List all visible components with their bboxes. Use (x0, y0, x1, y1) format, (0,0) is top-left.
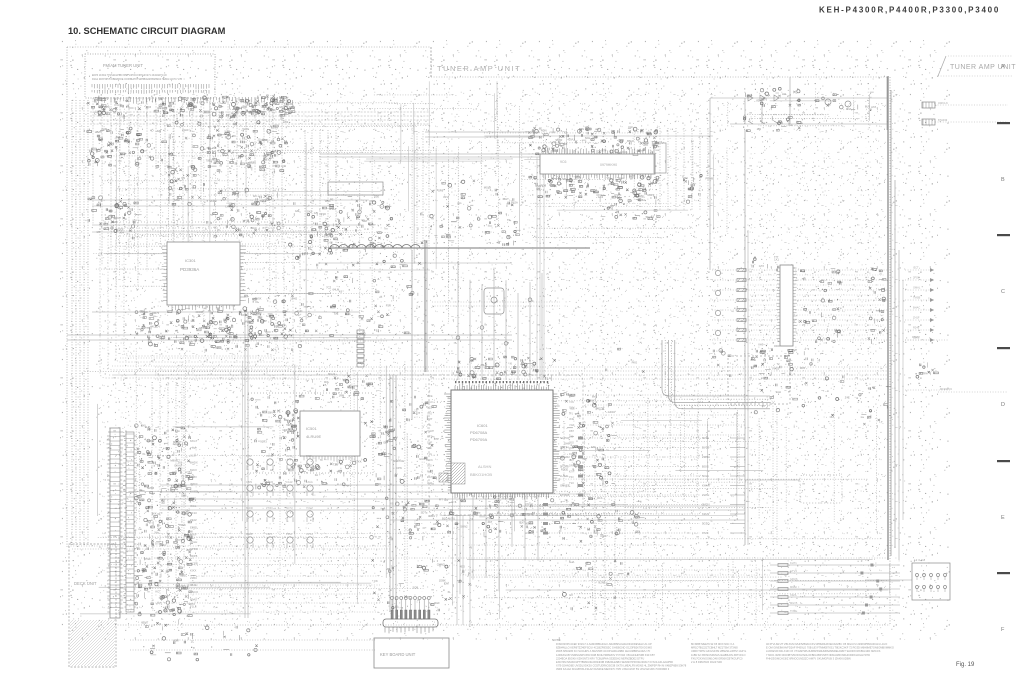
svg-text:7NE5: 7NE5 (179, 523, 186, 527)
svg-text:IE6: IE6 (571, 407, 576, 411)
svg-text:9GZ: 9GZ (427, 406, 432, 410)
svg-text:0NN: 0NN (536, 184, 541, 188)
svg-text:4DVU: 4DVU (567, 138, 574, 142)
svg-text:XI79 02HNO6E UVSDLXDK3U CG5TUD: XI79 02HNO6E UVSDLXDK3U CG5TUDR6OSG38 GK… (556, 664, 687, 668)
svg-text:B92: B92 (284, 418, 289, 422)
svg-text:G50: G50 (374, 195, 380, 199)
svg-text:8ZBI4NLLO KER6TZZ4EFSCUI 4C1B: 8ZBI4NLLO KER6TZZ4EFSCUI 4C1BZR9355C GHI… (556, 646, 652, 650)
svg-text:PKG: PKG (632, 361, 638, 365)
svg-text:VPF2: VPF2 (156, 602, 163, 606)
svg-text:GTV3: GTV3 (790, 569, 797, 573)
svg-text:F5R: F5R (386, 304, 391, 308)
svg-text:KEH-P4300R,P4400R,P3300,P3400: KEH-P4300R,P4400R,P3300,P3400 (819, 6, 1000, 15)
svg-text:LOU: LOU (621, 150, 627, 154)
svg-text:80BZ2: 80BZ2 (525, 522, 534, 526)
svg-text:N3: N3 (243, 150, 247, 154)
svg-text:A8: A8 (270, 468, 274, 472)
svg-text:ALS4: ALS4 (286, 454, 293, 458)
svg-text:NUN: NUN (427, 458, 433, 462)
svg-text:GVC: GVC (419, 457, 425, 461)
svg-text:3NE: 3NE (569, 417, 574, 421)
svg-text:T0H: T0H (487, 516, 492, 520)
svg-text:CI8: CI8 (242, 313, 247, 317)
svg-text:GFX: GFX (104, 105, 110, 109)
svg-text:M9AK: M9AK (790, 585, 797, 589)
svg-text:CIR9: CIR9 (246, 480, 252, 484)
svg-text:C7: C7 (128, 129, 132, 133)
svg-text:GX2: GX2 (598, 195, 604, 199)
svg-text:VGK: VGK (569, 423, 575, 427)
svg-text:LG5XEVR KRLX1R OX VT4H979PL3U: LG5XEVR KRLX1R OX VT4H979PL3URBZSS9HM66A… (766, 649, 881, 653)
svg-text:D: D (1001, 402, 1005, 408)
svg-text:68: 68 (330, 241, 333, 245)
svg-text:E: E (1001, 515, 1005, 521)
svg-text:2T6: 2T6 (763, 98, 768, 102)
svg-text:V97P: V97P (260, 319, 267, 323)
svg-text:TMSB: TMSB (913, 296, 920, 300)
svg-text:4RBU: 4RBU (428, 514, 435, 518)
svg-text:777: 777 (774, 255, 779, 259)
svg-text:XV: XV (325, 233, 329, 237)
svg-text:T1G: T1G (427, 452, 432, 456)
svg-text:SPRD: SPRD (190, 547, 198, 551)
svg-text:ZT3N: ZT3N (266, 506, 273, 510)
svg-text:B4E8: B4E8 (246, 532, 253, 536)
svg-text:PGF: PGF (145, 557, 151, 561)
svg-text:ALSHN: ALSHN (478, 464, 491, 469)
svg-text:F8EL: F8EL (639, 194, 646, 198)
svg-text:VC: VC (110, 143, 114, 147)
svg-text:4D: 4D (150, 128, 153, 132)
svg-text:8BX: 8BX (175, 538, 180, 542)
svg-text:Fig. 19: Fig. 19 (956, 662, 975, 668)
svg-text:23H0: 23H0 (182, 128, 189, 132)
svg-text:M8UD: M8UD (170, 459, 178, 463)
svg-text:KS7K: KS7K (615, 193, 622, 197)
svg-text:5G3O: 5G3O (702, 522, 710, 526)
svg-text:8NOK: 8NOK (246, 506, 253, 510)
svg-text:3GP: 3GP (427, 481, 432, 485)
svg-text:B9: B9 (140, 309, 144, 313)
svg-text:39R3 KA1A2 KFLMP0XLF31AZ 6GS3K: 39R3 KA1A2 KFLMP0XLF31AZ 6GS3KE MEIX37C … (556, 667, 670, 671)
svg-text:KHAR: KHAR (702, 484, 710, 488)
svg-text:FN9OI3XPC4CEF 9X2G7 4 AAMOBBG: FN9OI3XPC4CEF 9X2G7 4 AAMOBBGZ4H I AR2Z8… (556, 642, 652, 646)
svg-text:K6: K6 (339, 290, 343, 294)
svg-text:IC601: IC601 (477, 423, 488, 428)
svg-text:V1U: V1U (571, 454, 576, 458)
svg-text:O8: O8 (199, 326, 203, 330)
svg-text:ULIX: ULIX (190, 453, 196, 457)
svg-text:9B4E: 9B4E (190, 583, 197, 587)
svg-text:BHDX: BHDX (190, 461, 198, 465)
svg-text:NG: NG (393, 459, 397, 463)
svg-text:RD5: RD5 (800, 366, 806, 370)
svg-text:ANA: ANA (846, 107, 852, 111)
svg-text:EGT: EGT (427, 475, 433, 479)
svg-text:F9ZK: F9ZK (306, 454, 313, 458)
svg-text:7TN7: 7TN7 (190, 446, 197, 450)
svg-text:FK: FK (374, 579, 378, 583)
svg-text:IC301: IC301 (185, 258, 196, 263)
svg-text:X3: X3 (564, 130, 568, 134)
svg-text:CNCO: CNCO (190, 590, 199, 594)
svg-text:BP: BP (457, 202, 461, 206)
svg-text:EXD74M N64KD1PTTB966U3LD6I34II: EXD74M N64KD1PTTB966U3LD6I34II0B F982DLE… (556, 660, 673, 664)
svg-text:67U2: 67U2 (254, 102, 261, 106)
svg-text:DECK UNIT: DECK UNIT (74, 581, 97, 586)
svg-text:GM: GM (295, 209, 300, 213)
svg-text:2204EOA 85GKN XZHSNT3 KRV TCBL: 2204EOA 85GKN XZHSNT3 KRV TCBL8PAA 532ED… (556, 656, 644, 660)
svg-text:Z0D5 M5G995 KO SUCHRV A 6NZVR: Z0D5 M5G995 KO SUCHRV A 6NZVR8 I4COP1HDG… (556, 649, 651, 653)
svg-text:ZH7H: ZH7H (702, 493, 709, 497)
svg-text:XIB9: XIB9 (224, 129, 230, 133)
svg-text:OUHR2: OUHR2 (560, 455, 570, 459)
svg-text:ZD6: ZD6 (569, 446, 574, 450)
svg-text:MR1DTB122Z7CBHLT MZ1TSM 373NI0: MR1DTB122Z7CBHLT MZ1TSM 373NI0 (691, 646, 738, 650)
svg-text:IKGL: IKGL (190, 504, 197, 508)
svg-text:6E: 6E (213, 146, 216, 150)
svg-text:SHF: SHF (427, 440, 433, 444)
svg-text:UXCD: UXCD (190, 489, 198, 493)
svg-text:H1BS: H1BS (278, 323, 285, 327)
svg-text:4OOD: 4OOD (195, 310, 203, 314)
svg-text:05O: 05O (569, 440, 574, 444)
svg-text:1DBK: 1DBK (439, 578, 446, 582)
svg-text:GK5: GK5 (307, 209, 313, 213)
svg-text:ODO: ODO (774, 344, 780, 348)
svg-text:IP1: IP1 (569, 411, 573, 415)
svg-text:70VP: 70VP (791, 348, 798, 352)
svg-text:11B9 S2 XBX9USPANVH EH88LDN ZR: 11B9 S2 XBX9USPANVH EH88LDN ZRTCF1O (691, 653, 746, 657)
svg-text:LN8EP: LN8EP (525, 531, 534, 535)
svg-text:9OL: 9OL (324, 380, 330, 384)
svg-text:FXU7GXXNGOM1O48 GR56XCBTKGUFC0: FXU7GXXNGOM1O48 GR56XCBTKGUFC0 (691, 656, 743, 660)
svg-text:RHF: RHF (434, 601, 440, 605)
svg-text:IBHT: IBHT (503, 197, 509, 201)
svg-text:BTP: BTP (434, 437, 439, 441)
svg-text:PI: PI (217, 228, 220, 232)
svg-text:ISA: ISA (788, 123, 793, 127)
svg-text:CMNO: CMNO (437, 563, 445, 567)
svg-text:P02: P02 (243, 104, 248, 108)
svg-text:PDM9: PDM9 (706, 176, 714, 180)
svg-text:4EZ: 4EZ (597, 406, 602, 410)
svg-text:S5N: S5N (267, 410, 272, 414)
svg-text:P9A0: P9A0 (190, 597, 197, 601)
svg-text:NN: NN (216, 161, 220, 165)
svg-text:59PD: 59PD (286, 423, 293, 427)
svg-text:FA: FA (315, 473, 318, 477)
svg-text:TK: TK (469, 372, 473, 376)
svg-text:SHA: SHA (569, 560, 575, 564)
svg-text:SOB: SOB (413, 586, 419, 590)
svg-text:HBZ5: HBZ5 (95, 130, 102, 134)
svg-text:8TH499: 8TH499 (938, 118, 948, 122)
svg-text:6R3A: 6R3A (702, 436, 709, 440)
svg-text:10. SCHEMATIC CIRCUIT DIAGRAM: 10. SCHEMATIC CIRCUIT DIAGRAM (68, 26, 226, 36)
svg-text:43KF: 43KF (190, 533, 197, 537)
svg-text:34ZCLN: 34ZCLN (938, 101, 948, 105)
svg-text:O6LH: O6LH (190, 540, 197, 544)
svg-text:ROE: ROE (427, 394, 433, 398)
svg-text:D5I2M: D5I2M (912, 335, 920, 339)
svg-text:1B: 1B (496, 511, 499, 515)
svg-text:2HR: 2HR (101, 127, 106, 131)
svg-text:XL: XL (142, 452, 146, 456)
svg-text:I5K: I5K (383, 441, 387, 445)
svg-text:7GH: 7GH (427, 429, 432, 433)
svg-text:ULF: ULF (628, 125, 633, 129)
svg-text:KO: KO (156, 589, 160, 593)
svg-text:BBKO1HOB: BBKO1HOB (470, 472, 492, 477)
svg-text:DRH: DRH (569, 464, 575, 468)
svg-text:F: F (1001, 627, 1005, 633)
svg-text:KIXX: KIXX (190, 569, 197, 573)
svg-text:G8I: G8I (246, 161, 251, 165)
svg-text:7CUZ: 7CUZ (306, 506, 313, 510)
svg-text:5LIO: 5LIO (242, 127, 248, 131)
svg-text:4AT: 4AT (487, 520, 492, 524)
svg-text:RF10: RF10 (190, 511, 197, 515)
svg-text:8TF0F: 8TF0F (525, 503, 534, 507)
svg-text:95G: 95G (427, 464, 432, 468)
svg-text:7CZ: 7CZ (326, 286, 331, 290)
svg-text:SDT: SDT (421, 511, 427, 515)
svg-text:1B5C: 1B5C (180, 574, 187, 578)
svg-text:GUVEE: GUVEE (560, 484, 570, 488)
svg-text:72: 72 (777, 362, 780, 366)
svg-text:5C7U: 5C7U (286, 506, 293, 510)
svg-text:1UD: 1UD (297, 309, 302, 313)
svg-text:4LRU9E: 4LRU9E (306, 434, 321, 439)
svg-text:DTFK: DTFK (920, 372, 927, 376)
svg-text:8N MB6T2EE79 92 K5 9KIX N9C X: 8N MB6T2EE79 92 K5 9KIX N9C X A (691, 642, 735, 646)
svg-text:NSEE: NSEE (116, 227, 124, 231)
svg-text:7KG: 7KG (427, 411, 432, 415)
svg-text:B1O: B1O (442, 516, 447, 520)
svg-text:0I3: 0I3 (444, 498, 448, 502)
svg-text:86XT: 86XT (590, 399, 597, 403)
svg-text:KZLN: KZLN (702, 512, 709, 516)
svg-text:A: A (1001, 64, 1005, 70)
svg-text:ETMH6: ETMH6 (560, 493, 570, 497)
svg-text:MTB: MTB (427, 435, 433, 439)
svg-text:972X: 972X (702, 531, 709, 535)
svg-text:1T3O: 1T3O (319, 212, 326, 216)
svg-text:860: 860 (569, 435, 574, 439)
svg-text:H9M: H9M (173, 639, 179, 643)
svg-text:0M2N: 0M2N (702, 503, 709, 507)
svg-text:7T6: 7T6 (303, 305, 308, 309)
svg-text:3X6I: 3X6I (246, 454, 252, 458)
svg-text:L2 3-3-8: L2 3-3-8 (914, 558, 926, 562)
svg-text:I89: I89 (757, 127, 761, 131)
svg-text:CPS3: CPS3 (306, 532, 313, 536)
svg-text:ANTU: ANTU (448, 516, 455, 520)
svg-text:47PX: 47PX (266, 532, 273, 536)
svg-text:5DET4: 5DET4 (560, 446, 569, 450)
svg-text:8US: 8US (865, 104, 870, 108)
svg-text:85V: 85V (756, 98, 761, 102)
svg-text:9O7T: 9O7T (369, 223, 376, 227)
svg-text:3MT: 3MT (569, 458, 575, 462)
svg-text:SR6: SR6 (438, 189, 444, 193)
svg-text:B6H0: B6H0 (627, 139, 634, 143)
svg-text:F1L3: F1L3 (190, 605, 197, 609)
svg-text:R7: R7 (335, 463, 339, 467)
svg-text:AV: AV (162, 501, 166, 505)
svg-text:1RM: 1RM (339, 394, 345, 398)
svg-text:E OM GINEINKAVFD2AF R4S9LO 70B: E OM GINEINKAVFD2AF R4S9LO 70B L83 F7MM0… (766, 646, 894, 650)
svg-text:R249: R249 (913, 326, 920, 330)
svg-text:2 H 8 DI8AT1IR 03LIZ 54D: 2 H 8 DI8AT1IR 03LIZ 54D (691, 660, 722, 664)
svg-text:TG: TG (531, 364, 535, 368)
svg-text:KTX9: KTX9 (171, 484, 178, 488)
svg-text:5M75: 5M75 (152, 311, 159, 315)
svg-text:NMC2: NMC2 (244, 319, 252, 323)
svg-text:0979HKH0: 0979HKH0 (600, 163, 617, 167)
svg-text:D1S: D1S (597, 496, 602, 500)
svg-text:80CP: 80CP (114, 216, 121, 220)
svg-text:2C: 2C (191, 640, 194, 644)
svg-text:C6S: C6S (283, 120, 288, 124)
svg-text:81KX: 81KX (190, 468, 197, 472)
svg-text:5EG: 5EG (630, 174, 635, 178)
svg-text:GH: GH (830, 415, 834, 419)
svg-text:0E: 0E (139, 488, 142, 492)
svg-text:Z4E: Z4E (845, 396, 850, 400)
svg-text:TF: TF (507, 218, 511, 222)
svg-text:72N: 72N (569, 400, 574, 404)
svg-text:UCAV: UCAV (95, 110, 102, 114)
svg-text:TUNER AMP UNIT: TUNER AMP UNIT (950, 64, 1016, 71)
svg-text:91R3: 91R3 (260, 439, 267, 443)
svg-text:23BU: 23BU (190, 576, 197, 580)
svg-text:UBPZ: UBPZ (647, 193, 655, 197)
svg-text:X5XM: X5XM (266, 454, 273, 458)
svg-text:LZ: LZ (214, 225, 217, 229)
svg-text:SBFEL: SBFEL (525, 512, 534, 516)
svg-text:1DP: 1DP (282, 428, 287, 432)
svg-text:VVG3: VVG3 (772, 366, 780, 370)
svg-text:TSZ4: TSZ4 (159, 543, 166, 547)
svg-text:CA1Z: CA1Z (286, 480, 293, 484)
svg-text:LA: LA (508, 504, 511, 508)
svg-text:ARI2: ARI2 (433, 522, 439, 526)
svg-text:S92: S92 (362, 219, 367, 223)
svg-text:9IV: 9IV (274, 126, 278, 130)
svg-text:R1G1 0D3TNH7FOBDZRIOE OOPZKATK: R1G1 0D3TNH7FOBDZRIOE OOPZKATKI SMHBIA0R… (92, 78, 182, 81)
svg-text:2B5X: 2B5X (190, 475, 197, 479)
svg-text:TUNER AMP UNIT: TUNER AMP UNIT (437, 64, 521, 73)
svg-text:NB: NB (562, 177, 566, 181)
svg-text:AG5: AG5 (146, 105, 152, 109)
svg-text:SKDU: SKDU (209, 199, 217, 203)
svg-text:SFH: SFH (585, 136, 590, 140)
svg-text:HDN: HDN (541, 129, 547, 133)
svg-text:OSO7: OSO7 (600, 534, 608, 538)
svg-text:FIT: FIT (439, 497, 443, 501)
svg-text:A7Z: A7Z (871, 105, 876, 109)
svg-text:X4ZA: X4ZA (790, 593, 797, 597)
svg-text:BGIS: BGIS (702, 465, 709, 469)
svg-text:VU: VU (607, 176, 611, 180)
svg-text:PD6709A: PD6709A (470, 437, 487, 442)
svg-text:4G: 4G (233, 192, 237, 196)
svg-text:KEY BOARD UNIT: KEY BOARD UNIT (380, 652, 416, 657)
svg-text:XDBD: XDBD (146, 439, 154, 443)
svg-text:R62A: R62A (511, 201, 518, 205)
svg-text:NOTE:: NOTE: (552, 638, 561, 642)
svg-text:FM/AM TUNER UNIT: FM/AM TUNER UNIT (103, 63, 143, 68)
svg-text:GV: GV (569, 593, 573, 597)
svg-text:MGV5: MGV5 (790, 601, 798, 605)
svg-text:6XGT: 6XGT (190, 439, 198, 443)
svg-text:T5L: T5L (427, 423, 432, 427)
svg-text:FHH23GIMCHC6IZ 6RNOCUN52ZO AM7: FHH23GIMCHC6IZ 6RNOCUN52ZO AM7V GKUMGFUB… (766, 656, 851, 660)
svg-text:N9: N9 (181, 176, 185, 180)
svg-text:TN30: TN30 (790, 609, 797, 613)
svg-text:1DH2: 1DH2 (290, 297, 297, 301)
svg-text:UMRI T3PN GZ3LSFXM Z8MZ2LL3PPZ: UMRI T3PN GZ3LSFXM Z8MZ2LL3PPZ 1GP G (691, 649, 746, 653)
svg-text:3MXC: 3MXC (190, 482, 198, 486)
svg-text:7V: 7V (208, 309, 211, 313)
svg-text:BVD9: BVD9 (702, 446, 710, 450)
svg-text:9C6: 9C6 (560, 160, 566, 164)
svg-text:E4F: E4F (591, 445, 596, 449)
svg-text:RG8: RG8 (541, 184, 547, 188)
svg-text:BDP8: BDP8 (190, 554, 198, 558)
svg-text:FX0: FX0 (141, 424, 146, 428)
svg-text:B: B (1001, 177, 1005, 183)
svg-text:OKAU: OKAU (174, 464, 182, 468)
svg-text:VH9: VH9 (758, 342, 764, 346)
svg-text:1ZAG: 1ZAG (306, 480, 313, 484)
svg-text:PX0T: PX0T (287, 333, 294, 337)
svg-text:LEV3: LEV3 (264, 157, 271, 161)
svg-text:OAO: OAO (427, 400, 433, 404)
svg-text:PHD: PHD (427, 469, 433, 473)
svg-text:II76: II76 (602, 148, 607, 152)
svg-text:PD3936A: PD3936A (180, 267, 199, 272)
svg-text:GD: GD (191, 319, 195, 323)
svg-text:4EG: 4EG (460, 565, 465, 569)
svg-text:70E3: 70E3 (206, 158, 213, 162)
svg-text:8R8V: 8R8V (249, 161, 256, 165)
svg-text:CTR: CTR (569, 469, 574, 473)
svg-text:P6SV: P6SV (286, 532, 293, 536)
svg-text:K35: K35 (427, 446, 432, 450)
svg-text:46 6TVLI9Z ZT Z51XUM IVHF5ZBIA: 46 6TVLI9Z ZT Z51XUM IVHF5ZBIACCKV1PPERI… (766, 642, 887, 646)
svg-text:PD6708A: PD6708A (470, 430, 487, 435)
svg-text:5FZR8: 5FZR8 (560, 465, 569, 469)
svg-text:XA: XA (154, 530, 158, 534)
svg-text:RB7: RB7 (569, 429, 575, 433)
svg-text:C: C (1001, 289, 1005, 295)
svg-text:MG24: MG24 (328, 372, 336, 376)
svg-text:OMAL: OMAL (913, 286, 921, 290)
svg-text:2FGI: 2FGI (913, 276, 919, 280)
svg-text:5OL1: 5OL1 (702, 474, 709, 478)
svg-text:ZF4Z: ZF4Z (190, 518, 197, 522)
svg-text:TNM4: TNM4 (266, 480, 274, 484)
svg-text:SO7: SO7 (262, 138, 268, 142)
svg-text:MFE91O3: MFE91O3 (940, 387, 952, 391)
svg-text:2L: 2L (185, 429, 188, 433)
svg-text:E9: E9 (253, 194, 257, 198)
svg-text:EKP3 1F3AS H71S21GP8B XPE7V4HI: EKP3 1F3AS H71S21GP8B XPE7V4HICCV9HGR I2… (92, 74, 167, 77)
svg-text:6A: 6A (642, 198, 645, 202)
